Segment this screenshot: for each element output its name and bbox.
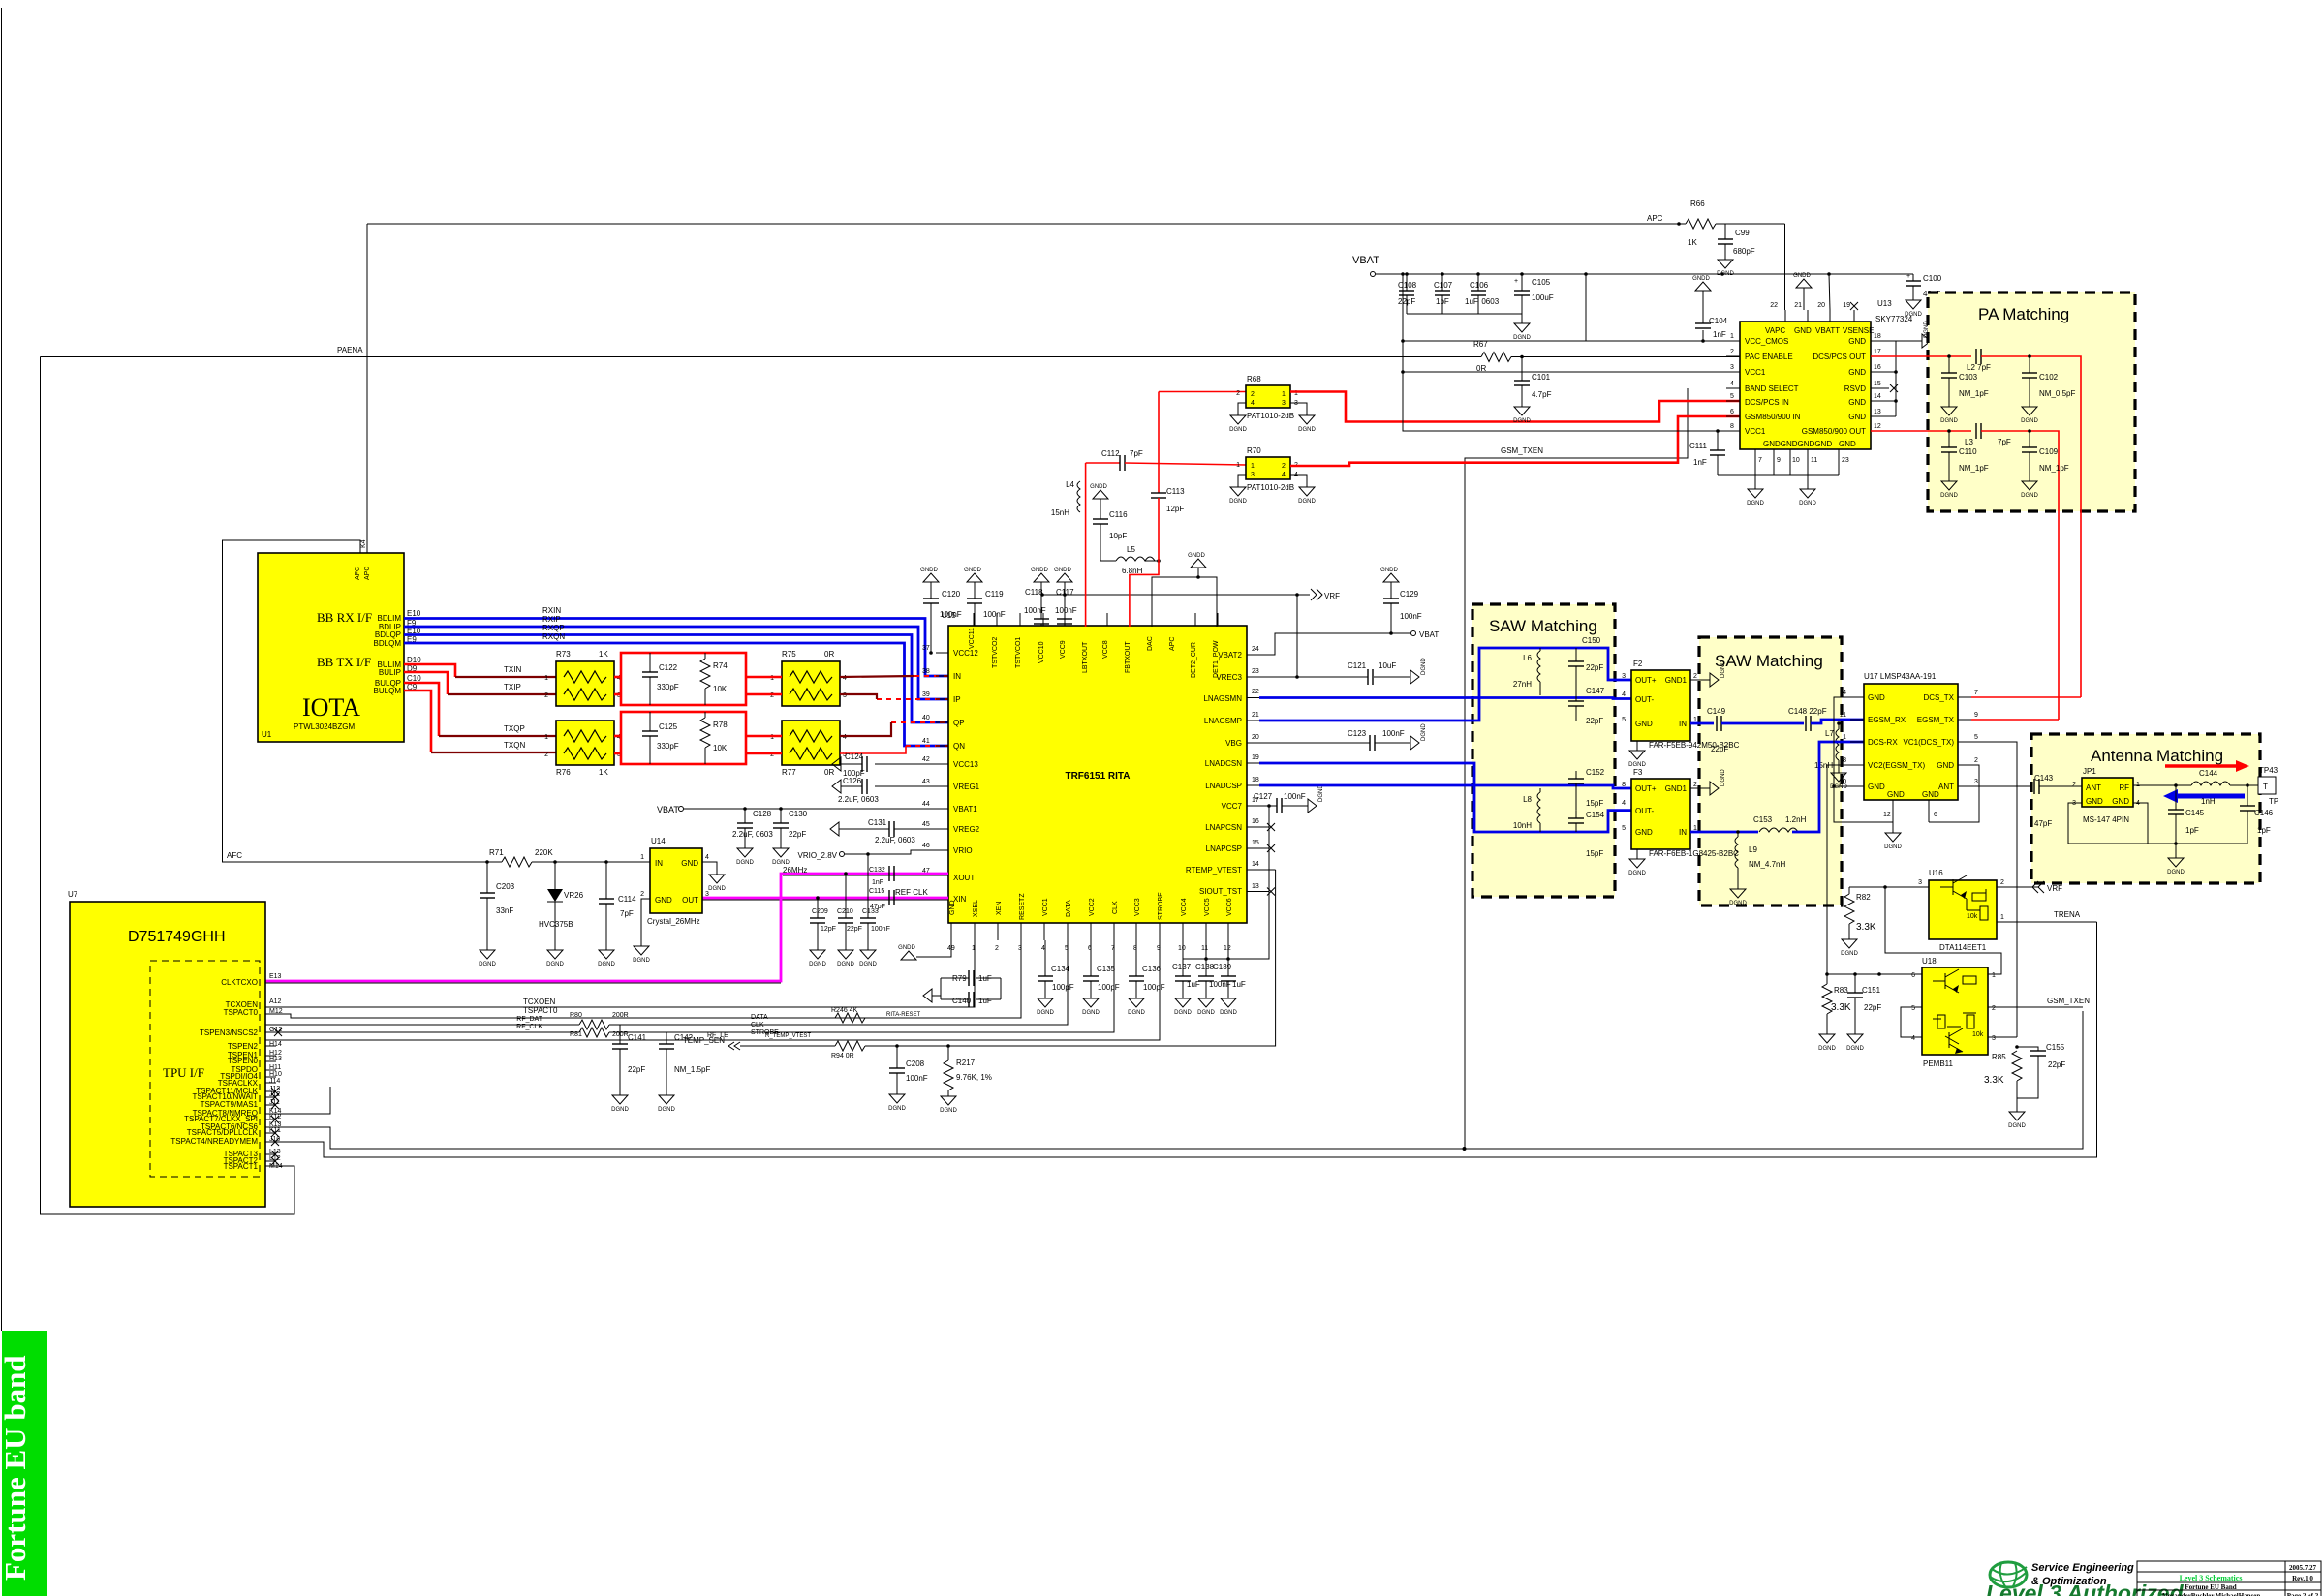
svg-text:RESETZ: RESETZ xyxy=(1019,893,1026,920)
svg-text:C145: C145 xyxy=(2185,809,2205,817)
svg-text:20: 20 xyxy=(1817,302,1825,309)
svg-text:DCS/PCS OUT: DCS/PCS OUT xyxy=(1813,353,1866,361)
svg-text:RXQN: RXQN xyxy=(542,632,565,641)
svg-text:22pF: 22pF xyxy=(1398,297,1415,306)
svg-text:VCC9: VCC9 xyxy=(1060,640,1067,659)
svg-text:CLK: CLK xyxy=(1112,901,1119,914)
svg-text:4: 4 xyxy=(705,854,709,861)
svg-text:R77: R77 xyxy=(782,768,796,777)
svg-text:TSPEN0: TSPEN0 xyxy=(228,1057,259,1065)
svg-text:BDLQM: BDLQM xyxy=(374,639,402,648)
svg-text:C121: C121 xyxy=(1348,661,1367,670)
svg-text:K4: K4 xyxy=(360,539,367,548)
svg-text:NM_1pF: NM_1pF xyxy=(1959,464,1989,473)
svg-text:ANT: ANT xyxy=(2086,783,2101,792)
svg-text:12pF: 12pF xyxy=(821,926,836,933)
svg-text:C150: C150 xyxy=(1582,636,1601,645)
svg-text:33nF: 33nF xyxy=(496,906,513,915)
svg-text:1: 1 xyxy=(1282,391,1286,398)
svg-text:1K: 1K xyxy=(1688,238,1697,247)
svg-text:MS-147 4PIN: MS-147 4PIN xyxy=(2083,815,2129,824)
svg-text:R73: R73 xyxy=(556,650,571,659)
svg-text:TSTVCO1: TSTVCO1 xyxy=(1015,637,1022,668)
svg-text:DGND: DGND xyxy=(1720,660,1726,678)
svg-text:10K: 10K xyxy=(713,685,728,693)
svg-text:DCS-RX: DCS-RX xyxy=(1868,738,1898,747)
svg-text:C143: C143 xyxy=(2034,774,2054,783)
svg-text:H14: H14 xyxy=(269,1041,282,1048)
svg-text:Fortune EU band: Fortune EU band xyxy=(0,1355,32,1581)
svg-text:TPU I/F: TPU I/F xyxy=(163,1065,204,1080)
svg-text:2: 2 xyxy=(1282,463,1286,470)
svg-text:3: 3 xyxy=(705,891,709,898)
svg-text:TSPEN3/NSCS2: TSPEN3/NSCS2 xyxy=(200,1028,259,1037)
svg-text:C134: C134 xyxy=(1051,965,1070,973)
svg-text:L6: L6 xyxy=(1523,654,1532,662)
svg-text:VC1(DCS_TX): VC1(DCS_TX) xyxy=(1904,738,1955,747)
svg-text:15: 15 xyxy=(1252,840,1259,846)
svg-text:1K: 1K xyxy=(599,650,608,659)
svg-text:C149: C149 xyxy=(1707,707,1726,716)
svg-text:R71: R71 xyxy=(489,848,504,857)
svg-text:R75: R75 xyxy=(782,650,796,659)
svg-text:22pF: 22pF xyxy=(2048,1060,2065,1069)
svg-text:EGSM_RX: EGSM_RX xyxy=(1868,716,1906,724)
svg-text:RF: RF xyxy=(2119,783,2129,792)
svg-text:PAT1010-2dB: PAT1010-2dB xyxy=(1247,412,1294,420)
svg-text:1uF: 1uF xyxy=(1187,980,1200,989)
svg-text:F3: F3 xyxy=(1633,768,1643,777)
svg-text:GND1: GND1 xyxy=(1665,784,1688,793)
svg-text:3.3K: 3.3K xyxy=(1831,1002,1851,1013)
svg-text:C129: C129 xyxy=(1400,590,1419,598)
svg-text:6: 6 xyxy=(1934,812,1937,818)
svg-text:VREG1: VREG1 xyxy=(953,783,980,791)
svg-text:8: 8 xyxy=(1843,757,1846,764)
svg-text:2: 2 xyxy=(1693,673,1697,680)
svg-text:1pF: 1pF xyxy=(2257,826,2271,835)
svg-text:GND: GND xyxy=(2112,797,2129,806)
svg-text:AlexanderBuchler,MichaelHansen: AlexanderBuchler,MichaelHansen xyxy=(2161,1592,2261,1596)
svg-text:STROBE: STROBE xyxy=(1158,892,1164,920)
svg-text:4.7pF: 4.7pF xyxy=(1532,390,1552,399)
svg-text:C110: C110 xyxy=(1959,447,1977,456)
svg-text:VCC7: VCC7 xyxy=(1222,802,1243,811)
svg-text:10: 10 xyxy=(1178,945,1186,952)
svg-text:RXIP: RXIP xyxy=(542,615,561,624)
svg-text:17: 17 xyxy=(1874,349,1881,355)
svg-text:1uF, 0603: 1uF, 0603 xyxy=(1465,297,1500,306)
svg-text:100nF: 100nF xyxy=(1382,729,1405,738)
svg-text:GSM850/900 OUT: GSM850/900 OUT xyxy=(1802,427,1866,436)
svg-text:D10: D10 xyxy=(407,656,421,664)
svg-text:TSPACT0: TSPACT0 xyxy=(224,1008,259,1017)
svg-text:10nH: 10nH xyxy=(1513,821,1532,830)
svg-text:U13: U13 xyxy=(1877,299,1892,308)
svg-text:FBTXOUT: FBTXOUT xyxy=(1125,641,1131,673)
svg-text:LBTXOUT: LBTXOUT xyxy=(1082,641,1089,673)
svg-text:45: 45 xyxy=(922,821,930,828)
svg-text:9: 9 xyxy=(1974,712,1978,719)
svg-text:C120: C120 xyxy=(942,590,961,598)
svg-text:100pF: 100pF xyxy=(1052,983,1074,992)
svg-text:VRF: VRF xyxy=(1324,592,1340,600)
svg-text:1.2nH: 1.2nH xyxy=(1785,815,1807,824)
svg-text:C125: C125 xyxy=(659,722,678,731)
svg-text:R85: R85 xyxy=(1992,1053,2006,1061)
svg-text:TSPACT5/DPLLCLK: TSPACT5/DPLLCLK xyxy=(187,1128,259,1137)
svg-text:DCS/PCS IN: DCS/PCS IN xyxy=(1745,398,1789,407)
svg-text:5: 5 xyxy=(1974,734,1978,741)
svg-text:1: 1 xyxy=(544,675,548,682)
svg-text:2: 2 xyxy=(2072,782,2076,788)
svg-text:3.3K: 3.3K xyxy=(1984,1075,2004,1086)
svg-text:C10: C10 xyxy=(407,674,421,683)
svg-text:LNAGSMN: LNAGSMN xyxy=(1203,694,1242,703)
svg-text:2: 2 xyxy=(1730,349,1734,355)
svg-text:+: + xyxy=(1906,273,1910,280)
svg-text:C135: C135 xyxy=(1097,965,1116,973)
svg-text:16: 16 xyxy=(1874,364,1881,371)
svg-text:1: 1 xyxy=(1843,734,1846,741)
svg-text:PA Matching: PA Matching xyxy=(1978,305,2069,323)
svg-text:CLK: CLK xyxy=(751,1022,764,1028)
svg-text:BULQM: BULQM xyxy=(374,687,402,695)
svg-text:AFC: AFC xyxy=(355,567,361,580)
svg-text:DGND: DGND xyxy=(1421,723,1427,741)
svg-text:R246 4K: R246 4K xyxy=(831,1007,858,1014)
svg-text:C140: C140 xyxy=(952,997,972,1005)
svg-text:3: 3 xyxy=(1282,400,1286,407)
svg-text:NM_4.7nH: NM_4.7nH xyxy=(1749,860,1785,869)
svg-text:15nH: 15nH xyxy=(1051,508,1069,517)
svg-text:19: 19 xyxy=(1252,754,1259,761)
svg-text:BB TX I/F: BB TX I/F xyxy=(317,655,371,669)
svg-text:5: 5 xyxy=(1622,825,1626,832)
svg-text:SAW Matching: SAW Matching xyxy=(1489,617,1597,635)
svg-text:U14: U14 xyxy=(651,837,666,845)
svg-text:PAENA: PAENA xyxy=(337,346,363,354)
svg-text:GND: GND xyxy=(1848,398,1866,407)
svg-text:7: 7 xyxy=(1974,690,1978,696)
svg-text:100pF: 100pF xyxy=(1098,983,1120,992)
svg-text:OUT: OUT xyxy=(682,896,698,905)
svg-text:EGSM_TX: EGSM_TX xyxy=(1917,716,1955,724)
svg-text:7pF: 7pF xyxy=(1998,438,2011,446)
svg-text:22pF: 22pF xyxy=(1586,717,1603,725)
svg-text:5: 5 xyxy=(1730,393,1734,400)
svg-text:APC: APC xyxy=(1169,637,1176,651)
svg-text:C115: C115 xyxy=(869,888,884,895)
svg-text:QN: QN xyxy=(953,742,965,751)
svg-text:VREC3: VREC3 xyxy=(1216,673,1242,682)
svg-text:R_TEMP_VTEST: R_TEMP_VTEST xyxy=(765,1033,811,1039)
svg-text:1: 1 xyxy=(640,854,644,861)
svg-text:3: 3 xyxy=(1918,879,1922,886)
svg-text:VBAT: VBAT xyxy=(657,805,679,814)
svg-text:SKY77324: SKY77324 xyxy=(1875,315,1913,323)
svg-text:GND: GND xyxy=(1848,413,1866,421)
svg-text:23: 23 xyxy=(1252,668,1259,675)
svg-text:100nF: 100nF xyxy=(983,610,1006,619)
svg-text:6: 6 xyxy=(1911,972,1915,979)
svg-text:14: 14 xyxy=(1252,861,1259,868)
svg-text:10pF: 10pF xyxy=(1109,532,1127,540)
svg-text:3: 3 xyxy=(1622,673,1626,680)
svg-text:VCC6: VCC6 xyxy=(1226,898,1233,916)
svg-text:VSENSE: VSENSE xyxy=(1843,326,1874,335)
svg-text:VCC1: VCC1 xyxy=(1745,427,1766,436)
svg-text:GND: GND xyxy=(1635,828,1653,837)
svg-text:Fortune EU Band: Fortune EU Band xyxy=(2185,1583,2236,1591)
svg-text:VAPC: VAPC xyxy=(1765,326,1785,335)
svg-text:100nF: 100nF xyxy=(906,1074,928,1083)
svg-text:2.2uF, 0603: 2.2uF, 0603 xyxy=(838,795,879,804)
svg-text:46: 46 xyxy=(922,843,930,849)
svg-text:DAC: DAC xyxy=(1147,636,1154,651)
svg-text:6: 6 xyxy=(1730,409,1734,415)
svg-text:IN: IN xyxy=(1679,828,1687,837)
svg-text:C136: C136 xyxy=(1142,965,1162,973)
svg-text:2.2uF, 0603: 2.2uF, 0603 xyxy=(732,830,773,839)
svg-text:C154: C154 xyxy=(1586,811,1605,819)
svg-text:21: 21 xyxy=(1794,302,1802,309)
svg-text:220K: 220K xyxy=(535,848,553,857)
svg-text:DGND: DGND xyxy=(1421,658,1427,675)
svg-text:VRIO: VRIO xyxy=(953,846,973,855)
svg-text:2: 2 xyxy=(1251,391,1255,398)
svg-text:C130: C130 xyxy=(789,810,808,818)
svg-text:Antenna Matching: Antenna Matching xyxy=(2091,747,2223,765)
svg-text:GND: GND xyxy=(1887,790,1905,799)
svg-text:C113: C113 xyxy=(1166,487,1185,496)
svg-text:NM_1pF: NM_1pF xyxy=(2039,464,2069,473)
svg-text:R82: R82 xyxy=(1856,893,1871,902)
svg-text:HVC375B: HVC375B xyxy=(539,920,573,929)
svg-text:AFC: AFC xyxy=(227,851,242,860)
svg-text:C112: C112 xyxy=(1101,449,1120,458)
svg-text:LNADCSN: LNADCSN xyxy=(1205,759,1242,768)
svg-text:100nF: 100nF xyxy=(1284,792,1306,801)
svg-text:4: 4 xyxy=(1251,400,1255,407)
svg-text:C147: C147 xyxy=(1586,687,1605,695)
svg-text:LNADCSP: LNADCSP xyxy=(1205,782,1242,790)
svg-text:LNAGSMP: LNAGSMP xyxy=(1204,717,1242,725)
svg-text:22pF: 22pF xyxy=(1586,663,1603,672)
svg-text:RSVD: RSVD xyxy=(1844,384,1866,393)
svg-text:VBAT1: VBAT1 xyxy=(953,805,977,813)
svg-text:GND1: GND1 xyxy=(1665,676,1688,685)
svg-text:GSM_TXEN: GSM_TXEN xyxy=(1501,446,1543,455)
svg-text:100nF: 100nF xyxy=(940,610,962,619)
svg-text:0R: 0R xyxy=(824,650,834,659)
svg-text:2: 2 xyxy=(544,752,548,758)
svg-text:37: 37 xyxy=(922,645,930,652)
svg-text:BB RX I/F: BB RX I/F xyxy=(317,610,372,625)
svg-text:OUT+: OUT+ xyxy=(1635,784,1657,793)
svg-text:2: 2 xyxy=(1693,782,1697,788)
svg-text:10: 10 xyxy=(1839,779,1846,785)
svg-text:23: 23 xyxy=(1842,457,1849,464)
svg-text:PAT1010-2dB: PAT1010-2dB xyxy=(1247,483,1294,492)
svg-text:GND: GND xyxy=(1922,790,1939,799)
svg-text:47pF: 47pF xyxy=(2034,819,2052,828)
svg-text:9.76K, 1%: 9.76K, 1% xyxy=(956,1073,992,1082)
svg-text:4: 4 xyxy=(1843,690,1846,696)
svg-text:C99: C99 xyxy=(1735,229,1750,237)
svg-text:L7: L7 xyxy=(1825,729,1834,738)
svg-text:GND: GND xyxy=(1848,337,1866,346)
svg-text:9: 9 xyxy=(1777,457,1781,464)
svg-text:12: 12 xyxy=(1883,812,1891,818)
svg-text:CLKTCXO: CLKTCXO xyxy=(221,978,258,987)
svg-text:15pF: 15pF xyxy=(1586,799,1603,808)
svg-text:C137: C137 xyxy=(1172,963,1192,971)
svg-text:1nF: 1nF xyxy=(872,879,883,886)
svg-text:1: 1 xyxy=(1992,972,1996,979)
svg-text:12: 12 xyxy=(1874,423,1881,430)
svg-text:C103: C103 xyxy=(1959,373,1978,382)
svg-text:16: 16 xyxy=(1252,818,1259,825)
svg-text:NM_1pF: NM_1pF xyxy=(1959,389,1989,398)
svg-text:GND: GND xyxy=(1635,720,1653,728)
svg-text:Crystal_26MHz: Crystal_26MHz xyxy=(647,917,700,926)
svg-text:DET1_POW: DET1_POW xyxy=(1213,640,1220,678)
svg-text:VCC_CMOS: VCC_CMOS xyxy=(1745,337,1788,346)
svg-text:A12: A12 xyxy=(269,998,282,1005)
svg-text:TP: TP xyxy=(2269,797,2278,806)
svg-text:22pF: 22pF xyxy=(1711,745,1728,753)
svg-text:C123: C123 xyxy=(1348,729,1367,738)
svg-text:1uF: 1uF xyxy=(978,974,992,983)
svg-text:TXQP: TXQP xyxy=(504,724,525,733)
svg-text:L9: L9 xyxy=(1749,845,1757,854)
svg-text:C122: C122 xyxy=(659,663,678,672)
svg-text:BAND SELECT: BAND SELECT xyxy=(1745,384,1799,393)
svg-text:VCC13: VCC13 xyxy=(953,760,978,769)
svg-text:680pF: 680pF xyxy=(1733,247,1755,256)
svg-text:GND: GND xyxy=(1839,440,1856,448)
svg-text:VCC10: VCC10 xyxy=(1038,641,1045,663)
svg-text:2.2uF, 0603: 2.2uF, 0603 xyxy=(875,836,915,844)
svg-text:10: 10 xyxy=(1792,457,1800,464)
svg-text:330pF: 330pF xyxy=(657,683,679,691)
svg-text:22pF: 22pF xyxy=(847,926,862,933)
svg-text:1: 1 xyxy=(544,734,548,741)
svg-text:42: 42 xyxy=(922,756,930,763)
svg-text:U18: U18 xyxy=(1922,957,1937,966)
svg-text:T: T xyxy=(2263,783,2268,791)
svg-text:38: 38 xyxy=(922,668,930,675)
svg-text:C144: C144 xyxy=(2199,769,2218,778)
svg-text:VC2(EGSM_TX): VC2(EGSM_TX) xyxy=(1868,761,1925,770)
svg-text:7: 7 xyxy=(1758,457,1762,464)
svg-text:TRENA: TRENA xyxy=(2054,910,2081,919)
svg-text:OUT-: OUT- xyxy=(1635,807,1654,815)
svg-text:10K: 10K xyxy=(713,744,728,752)
svg-text:PAC ENABLE: PAC ENABLE xyxy=(1745,353,1793,361)
svg-text:L5: L5 xyxy=(1127,545,1135,554)
svg-text:IN: IN xyxy=(1679,720,1687,728)
svg-text:C153: C153 xyxy=(1753,815,1773,824)
svg-text:4: 4 xyxy=(1282,472,1286,478)
svg-text:R74: R74 xyxy=(713,661,728,670)
svg-text:ANT: ANT xyxy=(1938,783,1954,791)
svg-text:GND: GND xyxy=(1937,761,1954,770)
svg-text:VCC1: VCC1 xyxy=(1745,368,1766,377)
svg-text:41: 41 xyxy=(922,738,930,745)
svg-text:VCC1: VCC1 xyxy=(1042,898,1049,916)
svg-text:LNAPCSP: LNAPCSP xyxy=(1206,844,1242,853)
svg-text:U17 LMSP43AA-191: U17 LMSP43AA-191 xyxy=(1864,672,1937,681)
svg-text:Level 3 Schematics: Level 3 Schematics xyxy=(2180,1574,2243,1582)
svg-text:2: 2 xyxy=(995,945,999,952)
svg-text:TXQN: TXQN xyxy=(504,741,525,750)
svg-text:GSM_TXEN: GSM_TXEN xyxy=(2047,997,2090,1005)
svg-text:15pF: 15pF xyxy=(1586,849,1603,858)
svg-text:TSTVCO2: TSTVCO2 xyxy=(992,637,999,668)
svg-text:8: 8 xyxy=(1730,423,1734,430)
svg-text:+: + xyxy=(1514,278,1518,285)
svg-text:0R: 0R xyxy=(824,768,834,777)
svg-text:15: 15 xyxy=(1874,381,1881,387)
svg-text:R78: R78 xyxy=(713,721,728,729)
svg-text:VRIO_2.8V: VRIO_2.8V xyxy=(798,851,838,860)
svg-text:IOTA: IOTA xyxy=(302,693,360,721)
svg-text:C139: C139 xyxy=(1213,963,1232,971)
svg-text:VR26: VR26 xyxy=(564,891,584,900)
svg-text:C133: C133 xyxy=(862,908,879,915)
svg-text:L3: L3 xyxy=(1965,438,1973,446)
svg-text:RXQP: RXQP xyxy=(542,624,565,632)
svg-text:1: 1 xyxy=(1251,463,1255,470)
svg-text:24: 24 xyxy=(1252,646,1259,653)
svg-text:1nF: 1nF xyxy=(1693,458,1707,467)
svg-text:100nF: 100nF xyxy=(1055,606,1077,615)
svg-text:VCC5: VCC5 xyxy=(1204,898,1211,916)
svg-text:Service Engineering: Service Engineering xyxy=(2031,1562,2134,1574)
svg-text:3: 3 xyxy=(1251,472,1255,478)
svg-text:C127: C127 xyxy=(1254,792,1273,801)
svg-text:3: 3 xyxy=(1730,364,1734,371)
svg-text:2: 2 xyxy=(2000,879,2004,886)
svg-text:TCXOEN: TCXOEN xyxy=(523,997,556,1006)
svg-text:L4: L4 xyxy=(1066,480,1074,489)
svg-text:GNDGNDGNDGND: GNDGNDGNDGND xyxy=(1763,440,1832,448)
svg-text:PTWL3024BZGM: PTWL3024BZGM xyxy=(294,722,355,731)
svg-text:GSM850/900 IN: GSM850/900 IN xyxy=(1745,413,1801,421)
svg-text:VCC3: VCC3 xyxy=(1134,898,1141,916)
svg-text:SAW Matching: SAW Matching xyxy=(1715,652,1823,670)
svg-text:U1: U1 xyxy=(262,730,272,739)
svg-text:R79: R79 xyxy=(952,974,967,983)
svg-text:GND: GND xyxy=(655,896,672,905)
svg-text:C106: C106 xyxy=(1470,281,1489,290)
svg-text:330pF: 330pF xyxy=(657,742,679,751)
svg-text:VCC4: VCC4 xyxy=(1181,898,1188,916)
svg-text:44: 44 xyxy=(922,801,930,808)
svg-text:C131: C131 xyxy=(868,818,887,827)
svg-text:10k: 10k xyxy=(1972,1031,1984,1038)
svg-text:18: 18 xyxy=(1252,777,1259,783)
svg-text:R217: R217 xyxy=(956,1059,976,1067)
svg-text:Page 2 of 2: Page 2 of 2 xyxy=(2287,1592,2319,1596)
svg-text:GND: GND xyxy=(681,859,698,868)
svg-text:OUT+: OUT+ xyxy=(1635,676,1657,685)
svg-text:APC: APC xyxy=(1647,214,1663,223)
svg-text:VBAT2: VBAT2 xyxy=(1218,651,1242,660)
svg-text:22: 22 xyxy=(1770,302,1778,309)
